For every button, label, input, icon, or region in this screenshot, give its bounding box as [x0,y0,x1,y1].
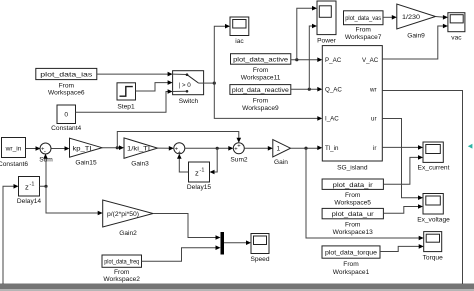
from workspace plot_data_freq [102,255,142,267]
svg-text:Gain: Gain [274,159,288,166]
svg-text:Delay14: Delay14 [17,198,42,205]
svg-text:plot_data_vas: plot_data_vas [345,15,382,22]
svg-text:z: z [25,183,29,192]
wire inner sum to Sum2 with junction [185,147,230,149]
wire plot_data_torque to Torque bottom [380,246,421,251]
svg-text:plot_data_torque: plot_data_torque [325,250,377,257]
svg-text:From: From [253,67,269,74]
svg-text:Tl_in: Tl_in [325,145,339,152]
wire plot_data_freq to Mux bottom [142,248,218,262]
wire to Delay15 input [213,148,217,172]
svg-text:wr_in: wr_in [5,146,22,153]
svg-text:ur: ur [371,116,377,123]
node junction delay14 out [44,185,47,188]
svg-text:From: From [356,27,372,34]
svg-text:1/230: 1/230 [402,14,420,21]
constant Constant6 wr_in [2,138,26,158]
svg-text:From: From [343,261,359,268]
svg-text:plot_data_freq: plot_data_freq [104,259,139,266]
svg-text:From: From [345,192,361,199]
svg-text:vac: vac [451,35,462,42]
wire Gain9 to vac top [436,16,445,19]
node teal arrow at right edge [468,144,473,149]
svg-text:From: From [114,269,130,276]
svg-text:Workspace11: Workspace11 [241,75,281,82]
node junction kp bypass [116,146,119,149]
unit delay Delay15 [189,162,210,182]
svg-text:Gain2: Gain2 [119,230,137,237]
svg-text:Workspace5: Workspace5 [334,200,371,207]
wire wr_in to Sum [26,148,38,150]
wire Delay15 out to inner sum bottom [179,157,188,172]
wire torque branch to Torque scope top [306,148,421,238]
svg-text:Gain15: Gain15 [75,160,97,167]
wire Switch out with junction to iac and I_AC [199,82,215,84]
wire Gain2 to Mux top [153,214,218,238]
svg-text:wr: wr [369,87,377,94]
wire Gain3 to inner sum [158,147,171,149]
wire V_AC to vac bottom [382,26,444,59]
from workspace plot_data_active [231,54,291,64]
svg-text:Workspace13: Workspace13 [333,229,374,236]
wire plot_data_ur to Ex_voltage bottom [383,207,419,214]
sum Sum2 [233,143,244,154]
from workspace plot_data_vas [344,11,384,25]
svg-text:SG_island: SG_island [337,165,368,172]
sum Sum [40,143,51,154]
mux Mux [221,232,225,255]
node junction delay15 branch [216,147,219,150]
svg-text:Torque: Torque [423,255,443,262]
bottom gray strip [0,284,474,290]
wire Delay14 out junction to Sum bottom and Gain2 [40,157,47,187]
gain Gain3 [124,138,158,158]
wire kp bypass to Sum2 top [117,132,239,148]
from workspace plot_data_torque [322,246,380,258]
svg-text:-1: -1 [200,168,205,174]
scope Power [317,1,336,35]
scope Ex_voltage [423,194,443,215]
svg-text:Speed: Speed [250,256,269,263]
wire active up to Power in1 [297,8,314,60]
svg-text:ir: ir [373,145,376,152]
svg-text:Workspace2: Workspace2 [103,276,140,283]
wire down to I_AC [214,83,319,118]
svg-text:1/ki_TI: 1/ki_TI [127,146,150,153]
constant Constant4 [57,105,76,124]
svg-text:Power: Power [317,38,336,45]
from workspace plot_data_ias [36,68,97,79]
sum inner integrator sum [174,143,185,154]
svg-text:Constant6: Constant6 [0,161,28,168]
svg-text:plot_data_ur: plot_data_ur [332,211,375,218]
svg-text:plot_data_ir: plot_data_ir [333,182,374,189]
gain Gain2 [103,200,153,227]
svg-text:From: From [59,83,75,90]
step Step1 [117,83,136,100]
svg-text:-1: -1 [30,182,35,188]
wire junction down to Gain2 [46,186,100,213]
from workspace plot_data_ur [322,208,383,218]
scope Speed [251,234,269,254]
scope vac [448,13,465,32]
gain Gain9 [397,4,436,29]
switch Switch [173,71,204,95]
svg-text:Q_AC: Q_AC [325,87,342,94]
svg-text:From: From [253,98,269,105]
scope Ex_current [423,142,443,162]
svg-text:kp_TI: kp_TI [73,145,92,152]
svg-text:iac: iac [235,38,244,45]
svg-text:Workspace6: Workspace6 [48,90,85,97]
svg-text:Switch: Switch [179,98,199,105]
svg-text:plot_data_reactive: plot_data_reactive [232,87,289,94]
gain Gain15 [70,138,103,157]
wire plot_data_vas to Gain9 [383,16,394,18]
svg-text:| > 0: | > 0 [179,82,192,89]
wire Mux to Speed [224,242,248,244]
wire ur to Ex_voltage top [382,119,420,198]
svg-text:plot_data_active: plot_data_active [233,56,288,63]
svg-text:Workspace7: Workspace7 [345,34,382,41]
svg-text:Gain9: Gain9 [407,33,425,40]
svg-text:Gain3: Gain3 [131,161,149,168]
svg-text:Constant4: Constant4 [51,125,81,132]
wire wr feedback to bottom left and Delay14 [382,91,462,285]
svg-text:Sum2: Sum2 [230,156,248,163]
wire ir to Ex_current top [382,146,420,148]
wire plot_data_ir to Ex_current bottom [383,157,419,184]
svg-text:1: 1 [277,146,281,153]
wire Step1 to Switch in2 [136,83,170,91]
svg-text:I_AC: I_AC [325,116,339,123]
svg-text:Ex_voltage: Ex_voltage [417,217,450,224]
svg-text:Delay15: Delay15 [187,184,212,191]
svg-text:From: From [345,222,361,229]
svg-text:Ex_current: Ex_current [418,165,450,172]
svg-text:0: 0 [64,112,68,119]
svg-text:Step1: Step1 [117,104,135,111]
from workspace plot_data_reactive [230,85,291,95]
wire Gain to Tl_in with junction [291,147,320,149]
svg-text:V_AC: V_AC [362,57,379,64]
wire Sum to Gain15 [52,148,67,150]
subsystem SG_island [322,46,382,161]
wire plot_data_reactive to Q_AC with junction [291,88,319,90]
from workspace plot_data_ir [322,179,383,189]
svg-text:z: z [195,169,199,178]
wire Sum2 to Gain [244,147,269,149]
svg-text:Workspace9: Workspace9 [242,105,279,112]
svg-text:P_AC: P_AC [325,57,342,64]
scope iac [230,17,249,36]
svg-text:p/(2*pi*50): p/(2*pi*50) [107,211,139,218]
scope Torque [424,232,442,252]
wire up to iac [214,26,227,83]
wire reactive up to Power in2 [309,26,314,89]
wire Constant4 to Switch in3 [76,92,170,113]
unit delay Delay14 [19,177,40,197]
wire Gain15 to Gain3 with junction [102,147,121,149]
svg-text:plot_data_ias: plot_data_ias [40,71,93,78]
wire plot_data_active to P_AC with junction [291,59,319,61]
svg-text:Workspace1: Workspace1 [333,269,370,276]
wire plot_data_ias to Switch in1 [97,73,170,75]
gain Gain [273,140,291,158]
node junction torque branch [304,147,307,150]
